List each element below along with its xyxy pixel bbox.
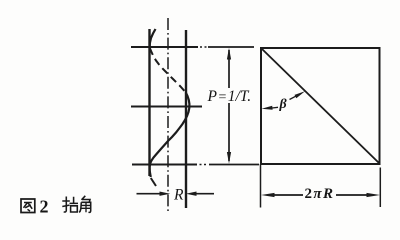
P dimension down arrowhead [227, 152, 231, 164]
bottom extension line [209, 164, 259, 166]
svg-text:β: β [279, 97, 288, 112]
svg-text:2πR: 2πR [305, 186, 335, 202]
helix hidden (dashed) half [150, 48, 186, 93]
top extension line [208, 46, 254, 48]
svg-text:1/T.: 1/T. [228, 88, 251, 105]
2piR right extension line [379, 168, 381, 208]
P dimension line upper [228, 50, 230, 88]
svg-text:P: P [207, 88, 218, 105]
helix front solid half [150, 93, 190, 178]
cylinder right edge [185, 30, 187, 208]
bottom extension dots [200, 164, 207, 166]
2piR dimension left line [274, 194, 303, 196]
caption hanzi: 图 [21, 199, 35, 213]
beta leader arrow to left edge [272, 106, 278, 109]
R dimension left arrowhead [160, 192, 171, 196]
cylinder vertical centerline [167, 18, 169, 213]
helix end barb [151, 178, 156, 186]
svg-text:R: R [173, 187, 184, 204]
2piR dimension right line [336, 194, 367, 196]
top generator line [131, 46, 198, 48]
helix upper solid tail [150, 29, 156, 48]
R dimension right arrowhead [186, 192, 197, 196]
2piR dimension right arrowhead [367, 193, 381, 197]
diagonal (unwrapped helix) [262, 49, 380, 164]
P dimension line lower [228, 103, 230, 161]
R dimension right arrow line [196, 193, 215, 195]
svg-text:=: = [219, 90, 227, 105]
2piR left extension line [260, 164, 262, 208]
top extension dots [200, 46, 207, 48]
caption hanzi: 角 [79, 196, 90, 213]
svg-text:2: 2 [40, 197, 49, 217]
bottom generator line [132, 164, 197, 166]
middle centerline [131, 106, 202, 108]
caption hanzi: 拈 [62, 197, 78, 213]
cylinder left edge [148, 29, 150, 176]
2piR dimension left arrowhead [261, 193, 275, 197]
P dimension up arrowhead [227, 48, 231, 60]
R dimension left arrow line [137, 193, 162, 195]
beta leader arrow to diagonal [290, 96, 297, 100]
square outline [261, 48, 380, 164]
